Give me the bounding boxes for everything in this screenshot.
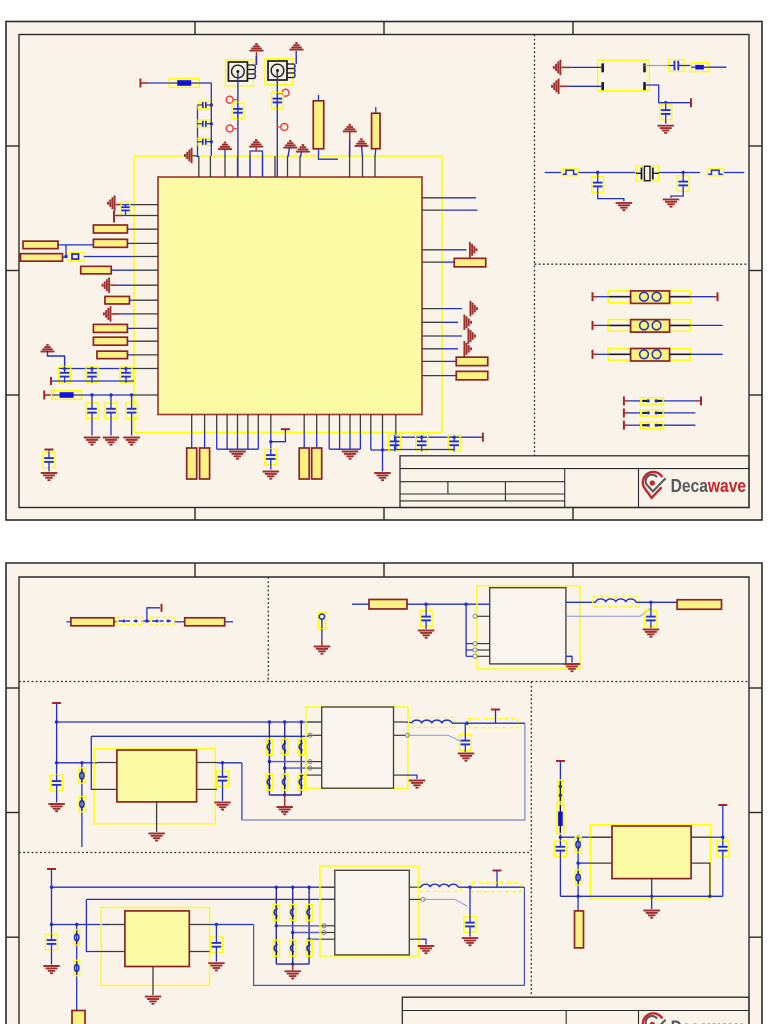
header body <box>609 349 690 362</box>
wire R13 to pin 14 <box>81 394 134 396</box>
jumper component <box>640 398 664 404</box>
wire cap row bottom <box>51 380 134 382</box>
wire C10 top <box>91 395 93 403</box>
capacitor C12 <box>126 403 138 419</box>
wire R6 to R5 <box>58 244 93 246</box>
ground under C33 <box>43 966 60 973</box>
wire U7 right top <box>711 836 723 838</box>
ground bus pins 11-14 <box>329 433 360 450</box>
U4 ground wire <box>406 775 418 779</box>
svg-text:Decawave: Decawave <box>671 476 746 496</box>
resistor R14 <box>454 258 486 267</box>
pin terminal C13 <box>45 449 54 451</box>
ground under C11 <box>103 438 120 445</box>
wire right pin 6 <box>441 321 458 323</box>
wire jumper left <box>629 424 641 426</box>
switcher U6 body <box>335 870 410 955</box>
U2 left pin stubs <box>477 616 490 656</box>
capacitor C29 <box>266 774 272 790</box>
wire C18 to R21 <box>684 65 690 67</box>
wire J1 center pin down <box>237 73 239 177</box>
resistor R4 <box>93 225 127 233</box>
wire R6 junction down <box>65 245 67 257</box>
capacitor C41 <box>464 917 476 933</box>
capacitor C9 <box>120 367 132 383</box>
capacitor C8 <box>86 367 98 383</box>
wire jumper left <box>629 400 641 402</box>
LDO U3 selection box <box>94 749 215 824</box>
U2 left bus wire <box>465 604 467 656</box>
wire right pin 4 <box>441 261 454 263</box>
resistor R24 <box>71 618 114 626</box>
wire C11 top <box>110 395 112 403</box>
ground cluster C stub <box>284 795 286 806</box>
wire C33 to ground <box>51 950 53 965</box>
ground U7 <box>643 911 660 918</box>
resistor R26 (vertical small) <box>318 613 325 629</box>
pin terminal at pin2 <box>113 211 115 223</box>
wire crystal net left <box>545 172 561 174</box>
U3 input lower wire <box>91 736 96 789</box>
capacitor C6 <box>121 202 130 216</box>
wire J2 shield to power <box>295 51 297 64</box>
U6 ground wire <box>421 939 426 944</box>
pin terminal U4 output <box>491 709 500 711</box>
LDO U3 body <box>117 750 197 802</box>
U6 pin stubs <box>322 887 421 939</box>
wire U7 right mid down <box>709 863 711 896</box>
sheet 1 inner border <box>19 35 749 508</box>
ground U2 <box>564 664 581 671</box>
wire R1 left red stub <box>140 82 148 84</box>
wire C43 to rail <box>722 857 724 897</box>
wire C24 to ground <box>56 791 58 803</box>
wire R24 left <box>67 621 71 623</box>
wire power arrow stem <box>224 149 226 157</box>
wire header left red stub <box>593 296 599 298</box>
pin terminal jumper right <box>700 396 702 405</box>
wire right pin 3 <box>441 249 466 251</box>
wire R3 top stub <box>375 107 377 113</box>
wire U7 left mid <box>578 862 590 864</box>
capacitor C10 <box>86 403 98 419</box>
resistor R5 <box>93 239 127 247</box>
wire bottom pin 8 <box>270 433 272 453</box>
wire out junction <box>217 762 242 764</box>
header outer box <box>608 349 690 361</box>
main IC U1 (DW1000) <box>158 177 422 415</box>
pin terminal jumper left <box>623 408 625 417</box>
wire R27 left <box>352 603 369 605</box>
arrow right pin 7 <box>468 328 475 344</box>
resistor R11 <box>93 337 127 345</box>
Decawave logo text sheet 1 <box>671 476 746 496</box>
wire J2 center pin down <box>276 72 278 177</box>
wire C32 to ground <box>464 751 466 753</box>
wire C34 to ground <box>215 953 217 962</box>
pin terminal header left <box>592 292 594 301</box>
resistor R20 (vertical) <box>312 448 322 479</box>
wire header right <box>690 353 722 355</box>
ground pins 3-7 <box>229 452 246 459</box>
wire R10 to pin <box>128 327 135 329</box>
wire jumper left red stub <box>624 412 629 414</box>
capacitor C24 <box>51 775 63 791</box>
power arrow above J2 <box>290 43 304 50</box>
ferrite bead FB1 (dashed) <box>117 617 143 625</box>
ground under C34 <box>208 963 225 970</box>
resistor R15 <box>456 357 488 366</box>
arrow right pin 3 <box>470 242 477 257</box>
wire U5 out junction <box>210 924 254 926</box>
sheet 2 section divider horizontal 2 (dashed) <box>19 852 531 854</box>
wire C41 to ground <box>469 933 471 937</box>
capacitor C39 <box>290 940 296 956</box>
capacitor C21 <box>677 176 689 192</box>
wire R8 to pin <box>111 269 134 271</box>
wire C22 to ground <box>425 627 427 630</box>
wire L2 to node <box>452 722 525 724</box>
wire balun in2 red stub <box>560 85 568 87</box>
pin terminal VIN D <box>47 868 56 870</box>
sheet 2 section divider vertical top (dashed) <box>267 577 269 682</box>
wire power stem pin 10 <box>349 131 351 157</box>
capacitor C15 <box>389 435 401 451</box>
U4 pin stubs <box>308 722 406 775</box>
header body <box>609 320 690 333</box>
capacitor C42 <box>554 841 566 857</box>
no-connect circle 2 on J2 net <box>277 124 288 131</box>
wire R26 to ground <box>321 629 323 639</box>
pin terminal of R1 <box>139 79 141 88</box>
U2 left bus links <box>466 644 473 657</box>
capacitor C19 <box>660 104 672 120</box>
wire junction to divider <box>57 762 97 764</box>
ground under C25 <box>214 802 231 809</box>
wire terminal stem D <box>496 871 498 888</box>
wire FB1-FB2 <box>143 620 150 622</box>
pin terminal header left <box>592 350 594 359</box>
ground under C14 <box>263 472 280 479</box>
ground U6 <box>418 946 435 953</box>
wire right pin 8 <box>441 348 458 350</box>
main IC top pin stubs <box>199 156 375 177</box>
wire power to cap row <box>48 351 65 369</box>
wire L3 to node <box>458 886 524 888</box>
antenna arrow pin 7 <box>103 277 110 293</box>
ground cluster D <box>284 971 301 978</box>
wire header left <box>598 353 609 355</box>
ground bus pins 3-7 <box>217 433 259 450</box>
ground under C23 <box>643 630 660 637</box>
U4 feedback wire (light) <box>408 735 463 742</box>
LDO U5 selection box <box>101 908 209 986</box>
wire right pin 2 <box>441 209 477 211</box>
wire R24-FB1 <box>114 621 117 623</box>
ground under C22 <box>418 631 435 638</box>
wire header left <box>598 296 609 298</box>
rail wire C <box>57 721 322 723</box>
pin terminal jumper left <box>623 421 625 430</box>
Decawave logo sheet 1 <box>643 472 665 498</box>
ground U3 <box>148 833 165 840</box>
wire D1 to pin 5 <box>84 256 134 258</box>
wire E junction to IC <box>560 836 612 838</box>
resistor R38 (vertical tall) <box>575 911 584 948</box>
balun T1 body <box>603 63 645 90</box>
wire header left red stub <box>593 324 599 326</box>
resistor R35 (blue vertical) <box>557 804 564 834</box>
wire C32 top <box>464 723 466 734</box>
resistor R7 <box>21 254 63 262</box>
capacitor C22 <box>420 611 432 627</box>
wire C12 top <box>131 395 133 403</box>
title block sheet 2 <box>402 997 749 1024</box>
no-connect circle on J2 net <box>277 89 289 96</box>
wire C22 top <box>425 604 427 610</box>
wire C19 to ground <box>665 120 667 124</box>
U2 pin circles left <box>473 614 477 618</box>
resistor R30 (small vertical) <box>79 797 85 812</box>
capacitor C33 <box>46 934 58 950</box>
switcher U4 selection box <box>306 707 408 788</box>
svg-text:Decawave: Decawave <box>671 1017 746 1024</box>
capacitor C3 <box>198 138 212 146</box>
wire U7 ground stub <box>651 896 653 909</box>
U7 pin stubs <box>590 837 710 896</box>
capacitor C4 on J1 net <box>232 103 244 119</box>
resistor R21 (small) <box>691 63 708 72</box>
wire right pin 9 <box>441 360 456 362</box>
wire balun in2 <box>568 85 603 87</box>
wire crystal net right <box>724 172 744 174</box>
capacitor C37 <box>306 904 312 920</box>
main IC left pin stubs <box>134 205 158 395</box>
pin terminal E right <box>718 804 727 806</box>
sheet 1 background <box>6 22 762 521</box>
resistor R37 (small vertical) <box>575 870 581 885</box>
power arrow above pin 8 <box>283 141 297 148</box>
wire arrow pin9 (red stub) <box>112 313 119 315</box>
wire arrow pin9 <box>119 313 134 315</box>
wire VIN down <box>56 703 58 777</box>
wire VIN D down <box>51 869 53 936</box>
resistor R29 (small vertical) <box>79 768 85 783</box>
capacitor C16 <box>416 435 428 451</box>
resistor R23 (small) <box>708 169 724 176</box>
wire jumper right <box>664 424 696 426</box>
bottom rail E <box>560 895 722 897</box>
wire cap row top <box>58 368 134 370</box>
wire C21 to ground <box>671 192 683 198</box>
ground under C24 <box>48 804 65 811</box>
wire header right <box>690 324 722 326</box>
wire C23 to ground <box>650 627 652 629</box>
wire jumper right <box>664 400 696 402</box>
arrow + capacitor at pins 1-2 <box>108 195 115 211</box>
wire node A to node B <box>659 172 700 174</box>
wire header right red stub <box>713 296 718 298</box>
wire terminal stem <box>495 710 497 724</box>
inductor L2 <box>409 718 455 728</box>
wire balun in1 <box>570 66 603 68</box>
resistor R6 <box>23 241 58 249</box>
crystal Y1 <box>636 166 659 181</box>
highlight wire segment (dashed yellow) <box>469 719 518 728</box>
capacitor C20 <box>592 177 604 193</box>
resistor R12 <box>97 351 128 359</box>
wire balun out top <box>645 65 669 67</box>
wire balun out bottom <box>645 85 692 103</box>
resistor R8 <box>81 266 112 274</box>
U6 feedback wire (light) <box>423 899 467 906</box>
wire C25 to ground <box>222 787 224 801</box>
pin terminal U6 output <box>493 870 502 872</box>
wire C21 top <box>682 173 684 176</box>
wire R12 to pin <box>128 354 135 356</box>
ground under R26 <box>314 647 331 654</box>
capacitor C40 <box>306 940 312 956</box>
divider wire D <box>76 925 78 1012</box>
battery monitor U7 body <box>612 826 691 879</box>
wire C13 top <box>48 450 50 453</box>
Decawave logo sheet 2 (partial) <box>643 1013 665 1024</box>
power arrow left cluster <box>41 345 55 352</box>
resistor R31 (small vertical) <box>74 930 80 945</box>
sheet 2 background <box>6 563 762 1024</box>
inductor L3 <box>418 881 461 891</box>
wire pin16 to ground <box>382 450 384 472</box>
ground cluster D stub <box>292 964 294 970</box>
inductor L1 <box>593 596 639 606</box>
resistor R9 <box>105 296 130 304</box>
wire balun cap down <box>665 103 667 104</box>
power arrow above pin 11 <box>355 139 369 146</box>
wire terminal to pin 8 <box>271 429 286 442</box>
divider E wire <box>577 837 579 911</box>
wire E vertical <box>559 761 561 843</box>
output loop wire D <box>254 887 525 985</box>
resistor R2 (vertical tall) <box>313 101 324 149</box>
wire right pin 7 <box>441 335 462 337</box>
ground cluster C <box>276 807 293 814</box>
pin terminal section A <box>161 604 163 612</box>
wire R11 to pin <box>128 340 135 342</box>
resistor R1 (blue body) <box>169 79 199 88</box>
highlight wire segment D (dashed yellow) <box>472 883 521 892</box>
wire LDO lower feed <box>91 735 308 737</box>
capacitor C30 <box>282 774 288 790</box>
decoupling capacitor column left vertical wire <box>197 105 199 157</box>
resistor R36 (small vertical) <box>575 837 581 852</box>
DC-DC converter U2 selection box <box>477 586 580 669</box>
ferrite bead FB2 (dashed) <box>150 617 174 625</box>
coax connector J1 <box>225 60 255 86</box>
wire R7-D1 <box>63 256 68 259</box>
capacitor C14 <box>265 449 277 465</box>
capacitor C18 <box>668 60 684 72</box>
wire balun in1 red stub <box>562 66 570 68</box>
wire R5 to pin <box>128 242 135 244</box>
pin terminal near pin 8 <box>281 428 290 430</box>
pin terminal E top <box>556 760 565 762</box>
wire bracket between pins <box>250 151 263 177</box>
wire R2 bottom <box>319 149 339 159</box>
wire R3 bottom <box>374 149 377 157</box>
wire decoupling row bottom <box>396 449 454 451</box>
LDO U5 body <box>125 911 189 967</box>
wire C20 to ground <box>598 193 624 202</box>
capacitor C7 <box>59 367 71 383</box>
ground under C10 <box>84 438 101 445</box>
wire bottom pin 10 <box>316 433 318 449</box>
resistor R28 <box>677 600 721 610</box>
U4 pin circles <box>308 733 312 737</box>
resistor R33 (vertical tall, clipped) <box>72 1011 85 1024</box>
wire header right <box>690 296 713 298</box>
jumper component <box>640 410 664 416</box>
capacitor C32 <box>459 735 471 751</box>
wire terminal to C6 (red) <box>114 215 122 217</box>
wire C12 to ground <box>131 419 133 436</box>
wire E right vertical <box>722 805 724 843</box>
wire R27 to U2 <box>407 603 490 605</box>
U2 output pin wire <box>566 601 596 603</box>
ground crystal right <box>663 199 680 206</box>
sheet 1 right column horizontal divider (dashed) <box>535 263 750 265</box>
wire jumper left <box>629 412 641 414</box>
resistor R32 (small vertical) <box>74 960 80 975</box>
wire R1 right to node <box>199 82 212 84</box>
capacitor C1 <box>198 101 212 109</box>
jumper component <box>640 422 664 428</box>
wire header left <box>598 324 609 326</box>
wire cap column right vertical <box>210 83 212 156</box>
wire C6 to pin2 <box>122 215 134 217</box>
wire bottom pin 9 <box>303 433 305 449</box>
cluster D column wires <box>276 887 322 964</box>
resistor R22 (small) <box>562 169 578 176</box>
wire arrow to C6 (red) <box>116 204 122 206</box>
wire right pin 5 <box>441 308 462 310</box>
wire jumper right red stub <box>696 400 701 402</box>
resistor R19 (vertical) <box>299 448 309 479</box>
arrow right pin 5 <box>470 301 477 317</box>
wire R2 top stub <box>318 95 320 101</box>
capacitor C11 <box>105 403 117 419</box>
resistor R16 <box>456 371 488 380</box>
wire C34 top <box>215 925 217 937</box>
wire R4 to pin <box>128 228 135 230</box>
U2 ground pin wire <box>566 656 572 662</box>
wire bottom pins 15-17 bus <box>371 433 396 451</box>
cluster C column wires <box>269 722 308 795</box>
capacitor C31 <box>298 774 304 790</box>
capacitor C28 <box>298 739 304 755</box>
arrow right pin 6 <box>464 315 471 331</box>
wire jumper left red stub <box>624 424 629 426</box>
resistor R25 <box>185 618 225 626</box>
sheet 1 outer border <box>6 22 762 521</box>
ground under pin 16 <box>374 473 391 480</box>
power arrow on bracket <box>249 140 263 147</box>
resistor R27 <box>369 599 407 609</box>
wire C13 to ground <box>48 468 50 472</box>
balun T1 selection box <box>598 60 650 91</box>
capacitor C26 <box>266 739 272 755</box>
coax connector J2 <box>265 59 295 85</box>
wire R25 right <box>225 621 233 623</box>
